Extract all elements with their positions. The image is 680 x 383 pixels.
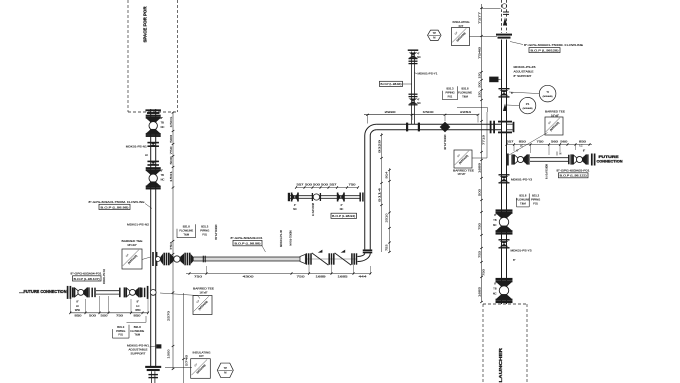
svg-text:MDK01-PS-N1: MDK01-PS-N1	[126, 145, 147, 149]
svg-text:750: 750	[482, 268, 486, 276]
pipe run B	[96, 290, 119, 292]
svg-text:5748: 5748	[185, 354, 189, 366]
svg-text:150: 150	[477, 72, 481, 79]
svg-text:B31.3: B31.3	[446, 87, 454, 91]
svg-text:B.O.P (L.98.107): B.O.P (L.98.107)	[74, 277, 100, 281]
insulating joint right pipe	[496, 34, 512, 36]
tee flanges run A at left pipe	[152, 252, 154, 266]
elbow riser top	[365, 124, 377, 135]
svg-text:B31.3: B31.3	[117, 325, 125, 329]
gate valve right pipe upper	[499, 88, 510, 89]
svg-text:PIPING: PIPING	[445, 90, 454, 94]
svg-text:8"-GPG-603A01-7500M. FLOWLINE: 8"-GPG-603A01-7500M. FLOWLINE	[89, 200, 145, 204]
svg-text:T&M: T&M	[462, 94, 468, 98]
svg-text:MDK01-PS-N3: MDK01-PS-N3	[214, 225, 218, 240]
ball valve run C 2	[570, 154, 571, 164]
svg-text:500: 500	[305, 183, 313, 187]
svg-text:SUPPORT: SUPPORT	[131, 352, 146, 356]
svg-text:MDK01-PS-N2: MDK01-PS-N2	[127, 223, 149, 227]
flow arrow right pipe mid	[503, 104, 507, 112]
svg-text:NC: NC	[417, 56, 421, 59]
hexagon TP M top	[428, 30, 442, 40]
svg-text:B31.8: B31.8	[183, 225, 191, 229]
svg-text:7548: 7548	[477, 46, 481, 59]
flange pair branch E	[409, 61, 418, 62]
spec table mid top	[457, 86, 459, 99]
svg-text:4": 4"	[417, 99, 419, 102]
svg-text:9114: 9114	[377, 187, 381, 202]
end cap mini run	[288, 193, 290, 201]
gate valve branch E upper	[409, 53, 418, 56]
leader barred tee 16x6	[472, 157, 487, 159]
svg-text:NC: NC	[417, 102, 421, 105]
end flange run C	[591, 154, 593, 166]
flange tick run A mid	[203, 256, 204, 263]
svg-text:500: 500	[477, 188, 481, 196]
svg-text:B.O.P (L.98.98): B.O.P (L.98.98)	[235, 242, 261, 246]
pipe right main vertical	[501, 40, 503, 305]
svg-text:557: 557	[507, 140, 515, 144]
flange top branch E	[408, 49, 419, 51]
svg-text:MDK01-PS-W2: MDK01-PS-W2	[102, 269, 106, 284]
ball circle run A valve	[174, 256, 180, 262]
svg-text:NC: NC	[161, 125, 165, 129]
tee circle run A	[155, 257, 160, 262]
diamond barred tee 16x10	[122, 249, 142, 269]
end flange run B	[67, 286, 69, 299]
dashed reserved-space box (pig receiver area)	[127, 0, 129, 112]
instrument circle P1	[519, 97, 535, 113]
svg-text:8": 8"	[513, 258, 515, 262]
svg-text:NC: NC	[293, 208, 297, 211]
svg-text:MDK01-PS-N4: MDK01-PS-N4	[288, 231, 292, 246]
label BOP L9894 mini	[331, 213, 357, 218]
svg-text:MDK01-PS-Y3: MDK01-PS-Y3	[511, 249, 532, 253]
svg-text:560: 560	[551, 140, 559, 144]
svg-text:2264: 2264	[460, 110, 472, 114]
svg-text:F01: F01	[448, 94, 453, 98]
svg-text:1501: 1501	[169, 170, 173, 182]
svg-text:1685: 1685	[477, 286, 481, 297]
svg-text:150: 150	[477, 91, 481, 98]
svg-text:4": 4"	[340, 204, 342, 207]
flange set 2 run A	[328, 253, 330, 264]
svg-text:500: 500	[169, 134, 173, 143]
hexagon TP M bottom	[217, 363, 233, 378]
svg-text:8"-GPG-603A01-7500M. FLOWLINE: 8"-GPG-603A01-7500M. FLOWLINE	[524, 43, 583, 47]
svg-text:500: 500	[313, 183, 321, 187]
pipe right main dashed top	[501, 0, 503, 33]
vent cap circle top	[502, 4, 507, 9]
svg-text:TB: TB	[493, 288, 497, 291]
svg-text:8": 8"	[516, 150, 518, 153]
svg-text:T&M: T&M	[520, 202, 526, 206]
svg-text:B31.8: B31.8	[461, 87, 469, 91]
svg-text:F01: F01	[202, 232, 207, 236]
svg-text:M: M	[224, 371, 226, 375]
svg-text:T&M: T&M	[134, 333, 140, 337]
svg-text:FLOWLINE: FLOWLINE	[516, 198, 530, 202]
tee flanges branch E at run D	[406, 123, 408, 132]
svg-text:F01: F01	[533, 202, 538, 206]
gate valve mini 2	[337, 193, 339, 202]
spec table run A	[195, 224, 197, 237]
globe valve mini	[312, 193, 313, 201]
instrument circle TI	[539, 85, 556, 102]
svg-text:PIPING: PIPING	[531, 198, 540, 202]
pipe run A centerline	[190, 258, 357, 260]
svg-text:NC: NC	[493, 293, 497, 296]
svg-text:914: 914	[385, 171, 389, 179]
svg-text:TB: TB	[161, 121, 165, 125]
svg-text:500: 500	[169, 156, 173, 165]
leader line top	[457, 107, 488, 109]
pipe run A horizontal	[194, 256, 301, 258]
svg-text:KIT: KIT	[199, 354, 204, 358]
svg-text:500: 500	[101, 314, 109, 318]
svg-text:B31.3: B31.3	[532, 194, 540, 198]
svg-text:557: 557	[330, 183, 338, 187]
svg-text:1689: 1689	[316, 275, 327, 279]
svg-text:TI: TI	[546, 90, 549, 94]
joint flange run B a	[91, 288, 93, 298]
pipe riser vertical	[364, 136, 366, 250]
anchor support run D (black diamond)	[440, 122, 451, 133]
leader at top right pipe	[481, 8, 501, 10]
flow flag 1	[318, 250, 323, 253]
svg-text:7377: 7377	[477, 11, 481, 24]
svg-text:850: 850	[134, 314, 142, 318]
svg-text:8": 8"	[76, 301, 78, 304]
svg-text:16"x10": 16"x10"	[127, 243, 137, 247]
svg-text:MDK01-PS-Y1: MDK01-PS-Y1	[418, 71, 438, 75]
svg-text:1500: 1500	[423, 110, 435, 114]
svg-text:FLOWLINE: FLOWLINE	[130, 329, 144, 333]
svg-text:LC: LC	[76, 305, 79, 308]
svg-text:LC: LC	[145, 153, 148, 157]
svg-text:B.O.P (L.98.122): B.O.P (L.98.122)	[560, 174, 587, 178]
tee circle run B at left pipe	[147, 286, 149, 299]
svg-text:557: 557	[297, 183, 305, 187]
svg-text:B31.3: B31.3	[201, 225, 209, 229]
flange set 1 run A	[306, 253, 308, 264]
svg-text:P1: P1	[526, 102, 530, 106]
svg-text:M: M	[433, 36, 435, 40]
svg-text:850: 850	[579, 140, 587, 144]
flange set 3 run A	[351, 253, 353, 264]
ball valve left-2	[146, 167, 161, 169]
diamond insulating kit top	[452, 28, 470, 46]
tee flanges mini at riser	[359, 193, 361, 202]
dimension line right pipe column	[481, 4, 483, 302]
diamond barred tee right	[545, 117, 563, 135]
svg-text:W50: W50	[75, 309, 81, 312]
svg-text:PIPING: PIPING	[116, 329, 125, 333]
dashed reserved-space box (pig launcher area)	[482, 304, 484, 383]
svg-text:1501: 1501	[169, 116, 173, 128]
joint flanges left pipe b	[147, 161, 159, 163]
label BOP L98122	[559, 173, 589, 178]
svg-text:444: 444	[359, 275, 368, 279]
svg-text:750: 750	[477, 222, 481, 230]
vent tick run C	[556, 152, 558, 156]
small bars right pipe top	[503, 12, 509, 13]
svg-text:8": 8"	[511, 91, 513, 95]
dimension line run C	[507, 144, 593, 146]
cross junction run D right pipe	[490, 121, 492, 134]
pipe branch E vertical 4in	[411, 52, 413, 125]
svg-text:SPACE FOR POR: SPACE FOR POR	[143, 6, 148, 43]
svg-text:B.O.P (L.98.94): B.O.P (L.98.94)	[381, 82, 402, 86]
svg-text:1689: 1689	[477, 162, 481, 173]
svg-text:750: 750	[297, 275, 306, 279]
label BOP L98107	[73, 276, 102, 281]
dimension line left pipe column	[172, 112, 174, 369]
cone run A c	[180, 253, 184, 264]
svg-text:B31.8: B31.8	[134, 325, 142, 329]
svg-text:G LAUNCHER: G LAUNCHER	[498, 347, 503, 383]
tee flanges run C	[507, 154, 509, 166]
svg-text:8": 8"	[161, 116, 163, 120]
svg-text:750: 750	[194, 275, 203, 279]
svg-text:8"-GPG-603A03-F01: 8"-GPG-603A03-F01	[231, 236, 263, 240]
left pipe bottom narrow continuation	[151, 371, 153, 383]
dimension line run D	[364, 114, 478, 116]
pipe mini run	[290, 195, 360, 197]
svg-text:1685: 1685	[338, 275, 349, 279]
svg-text:750: 750	[169, 241, 173, 250]
gate valve branch E lower	[409, 99, 418, 102]
diamond insulating kit bottom	[191, 359, 211, 379]
ball valve right pipe V4	[496, 278, 513, 280]
svg-text:4300: 4300	[243, 275, 255, 279]
svg-text:(MS5A89): (MS5A89)	[543, 95, 553, 98]
svg-text:B.O.P (L.98.94): B.O.P (L.98.94)	[332, 214, 355, 218]
svg-text:MDK01-PS-Y4: MDK01-PS-Y4	[311, 203, 315, 216]
svg-text:LC: LC	[520, 145, 523, 148]
svg-text:753: 753	[477, 250, 481, 258]
svg-text:16"x6": 16"x6"	[457, 172, 465, 176]
svg-text:500: 500	[477, 81, 481, 88]
dim extensions run A	[206, 266, 208, 274]
cone run A a	[160, 253, 163, 264]
svg-text:2010: 2010	[385, 213, 389, 223]
svg-text:16"x8": 16"x8"	[199, 290, 207, 294]
diamond barred tee 16x6	[454, 150, 472, 168]
reducer run A	[191, 254, 194, 264]
flange bars run A valve left	[163, 253, 165, 266]
flange pair branch E mid	[409, 94, 418, 95]
svg-text:850: 850	[519, 140, 527, 144]
ball valve run B 1	[72, 287, 73, 297]
pipe run C	[530, 157, 569, 159]
dimension line run A	[186, 273, 371, 275]
flow flag 2	[341, 250, 346, 253]
svg-text:1000: 1000	[166, 349, 170, 359]
svg-text:2930: 2930	[385, 110, 397, 114]
svg-text:MDK01-PS-06: MDK01-PS-06	[279, 230, 283, 247]
svg-text:753: 753	[385, 244, 389, 251]
joint flange run C	[568, 155, 570, 165]
svg-text:F01: F01	[118, 333, 123, 337]
svg-text:NC: NC	[161, 178, 165, 182]
svg-text:(MS5A89): (MS5A89)	[523, 107, 533, 110]
svg-text:9329: 9329	[377, 139, 381, 153]
gate valve right pipe 3	[499, 239, 510, 240]
svg-text:B.O.P (L.98128): B.O.P (L.98128)	[531, 49, 559, 53]
diamond barred tee 16x8 bl	[193, 296, 212, 315]
dim extensions run C	[513, 145, 515, 152]
svg-text:4": 4"	[294, 204, 296, 207]
flange pair riser bottom	[363, 249, 373, 251]
svg-text:TB: TB	[493, 219, 497, 222]
svg-text:B31.8: B31.8	[519, 194, 527, 198]
ball valve run B 2	[124, 287, 125, 297]
support black box left pipe	[156, 344, 161, 348]
svg-text:850: 850	[75, 314, 83, 318]
spec table right	[528, 194, 530, 207]
svg-text:PIPING: PIPING	[200, 228, 209, 232]
label BOP L9898 left	[99, 204, 130, 209]
joint flanges left pipe a	[147, 142, 159, 144]
label BOP L9894 branch	[380, 81, 403, 86]
dim extension lines run D	[367, 115, 369, 124]
svg-text:560: 560	[560, 140, 568, 144]
gate valve mini 1	[291, 193, 293, 202]
svg-text:750: 750	[116, 314, 124, 318]
svg-text:MDK01-PS-Y3: MDK01-PS-Y3	[511, 178, 532, 182]
flange pair left pipe top	[145, 109, 161, 111]
support black box right pipe	[489, 77, 498, 83]
svg-text:FUTURE CONNECTION: FUTURE CONNECTION	[24, 289, 67, 294]
cone run A b	[170, 253, 174, 264]
dimension line run B	[70, 312, 148, 314]
svg-text:TB: TB	[161, 173, 165, 177]
svg-text:NC: NC	[340, 208, 344, 211]
ball valve MDK01 left-1	[146, 115, 161, 117]
svg-text:TP: TP	[433, 31, 437, 35]
svg-text:MDK01-PS-Y6: MDK01-PS-Y6	[545, 164, 549, 179]
svg-text:LC: LC	[579, 145, 582, 148]
svg-text:8": 8"	[161, 169, 163, 173]
elbow riser bottom	[358, 253, 371, 261]
svg-text:T&M: T&M	[183, 232, 189, 236]
svg-text:W50: W50	[135, 309, 141, 312]
insulating spool diagonal 2	[335, 253, 352, 265]
svg-text:8": 8"	[494, 283, 496, 286]
insulating spool diagonal 1	[312, 253, 329, 265]
flow arrow right pipe top	[503, 17, 507, 25]
pipe left main vertical 16in	[150, 109, 152, 366]
svg-text:8"-GPG-603A05-F01: 8"-GPG-603A05-F01	[557, 169, 591, 173]
dim extensions run B	[69, 299, 71, 313]
reducer cone run A	[300, 254, 305, 263]
svg-text:CONNECTION: CONNECTION	[597, 159, 623, 164]
svg-text:500: 500	[89, 314, 97, 318]
pipe run D horizontal	[376, 123, 501, 125]
svg-text:MDK01-PS-Z6: MDK01-PS-Z6	[514, 65, 536, 69]
label BOP L98128	[529, 48, 560, 53]
gate valve right pipe 2	[499, 174, 510, 175]
extra extension line bottom	[183, 293, 185, 383]
joint flange run B c	[141, 288, 143, 298]
svg-text:LC: LC	[136, 305, 139, 308]
joint flange run B b	[119, 288, 121, 298]
svg-text:8": 8"	[494, 214, 496, 217]
svg-text:750: 750	[349, 183, 357, 187]
svg-text:ADJUSTABLE: ADJUSTABLE	[514, 70, 534, 74]
svg-text:N: N	[560, 153, 562, 156]
svg-text:750: 750	[169, 146, 173, 155]
svg-text:MDK01-PS-N5: MDK01-PS-N5	[443, 135, 447, 150]
svg-text:8"-GPG-603A04-F01: 8"-GPG-603A04-F01	[71, 272, 102, 276]
spec table bottom left	[128, 325, 130, 338]
svg-text:B.O.P (L.98.98): B.O.P (L.98.98)	[101, 205, 129, 209]
svg-text:FLOWLINE: FLOWLINE	[458, 90, 472, 94]
svg-text:8": 8"	[137, 301, 139, 304]
svg-text:500: 500	[321, 183, 329, 187]
dimension line mini run	[296, 187, 358, 189]
svg-text:NC: NC	[493, 224, 497, 227]
svg-text:7719: 7719	[482, 134, 486, 145]
svg-text:4": 4"	[417, 53, 419, 56]
flange bars run A valve right	[184, 253, 186, 266]
svg-text:TP: TP	[224, 366, 228, 370]
svg-text:FLOWLINE: FLOWLINE	[179, 228, 193, 232]
dimension line 2 right of riser	[389, 168, 391, 253]
ball valve run C 1	[511, 154, 512, 164]
ball valve right pipe V3	[496, 209, 513, 211]
insulating joint left pipe bottom	[145, 366, 161, 368]
small bars left pipe bottom	[148, 374, 158, 375]
svg-text:2570: 2570	[166, 310, 170, 321]
svg-text:8": 8"	[583, 150, 585, 153]
svg-text:8" SUPPORT: 8" SUPPORT	[514, 74, 532, 78]
label BOP L9898	[233, 240, 262, 245]
dimension line right of riser	[381, 133, 383, 252]
svg-text:750: 750	[537, 140, 545, 144]
leader to insulating joint	[469, 36, 497, 38]
